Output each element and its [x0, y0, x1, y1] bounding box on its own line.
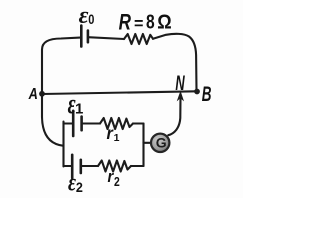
battery cell e0 [81, 26, 88, 47]
svg-text:Ω: Ω [157, 12, 171, 34]
wire: left rail of parallel branches [62, 122, 64, 167]
galvanometer G body [151, 134, 169, 152]
svg-text:r: r [108, 168, 114, 186]
node B dot [194, 89, 200, 95]
svg-text:1: 1 [114, 132, 120, 144]
battery cell e1 [73, 111, 81, 136]
wire: cell e0 to resistor R [88, 37, 124, 39]
wire: right rail of parallel branches [142, 124, 144, 167]
resistor R1 (R = 8 ohm) zigzag [124, 34, 153, 44]
wire: node A to node B horizontal [42, 91, 197, 94]
svg-text:G: G [156, 135, 167, 151]
wire: right rail stub to galvanometer [144, 142, 152, 144]
wire: galvanometer to node N with curve [168, 97, 180, 135]
wire: cell e1 to resistor r1 [82, 122, 100, 124]
svg-text:R: R [119, 10, 132, 35]
wire: resistor R to B, top-right corner [153, 34, 197, 90]
wire: left rail to cell e1 [64, 122, 73, 124]
wire: left rail to cell e2 [64, 165, 72, 167]
svg-text:1: 1 [75, 100, 83, 117]
svg-text:A: A [28, 86, 38, 104]
svg-text:2: 2 [114, 174, 120, 190]
svg-text:ε: ε [79, 3, 89, 29]
svg-text:=: = [134, 14, 143, 33]
svg-text:8: 8 [146, 11, 155, 33]
wire: resistor r2 to right rail [131, 165, 144, 167]
svg-text:B: B [202, 82, 212, 106]
wire: A down to parallel section left rail [42, 94, 64, 146]
resistor r2 zigzag [98, 161, 131, 172]
battery cell e2 [72, 155, 81, 178]
svg-text:0: 0 [88, 12, 94, 27]
wire: resistor r1 to right rail [133, 122, 144, 124]
wire: A up-left corner to cell e0 [42, 38, 80, 94]
wire: cell e2 to resistor r2 [81, 165, 98, 167]
arrowhead pointing up to node N [178, 92, 184, 101]
node A dot [39, 91, 45, 97]
svg-text:N: N [175, 71, 185, 95]
resistor r1 zigzag [100, 118, 133, 129]
svg-text:2: 2 [76, 179, 83, 195]
